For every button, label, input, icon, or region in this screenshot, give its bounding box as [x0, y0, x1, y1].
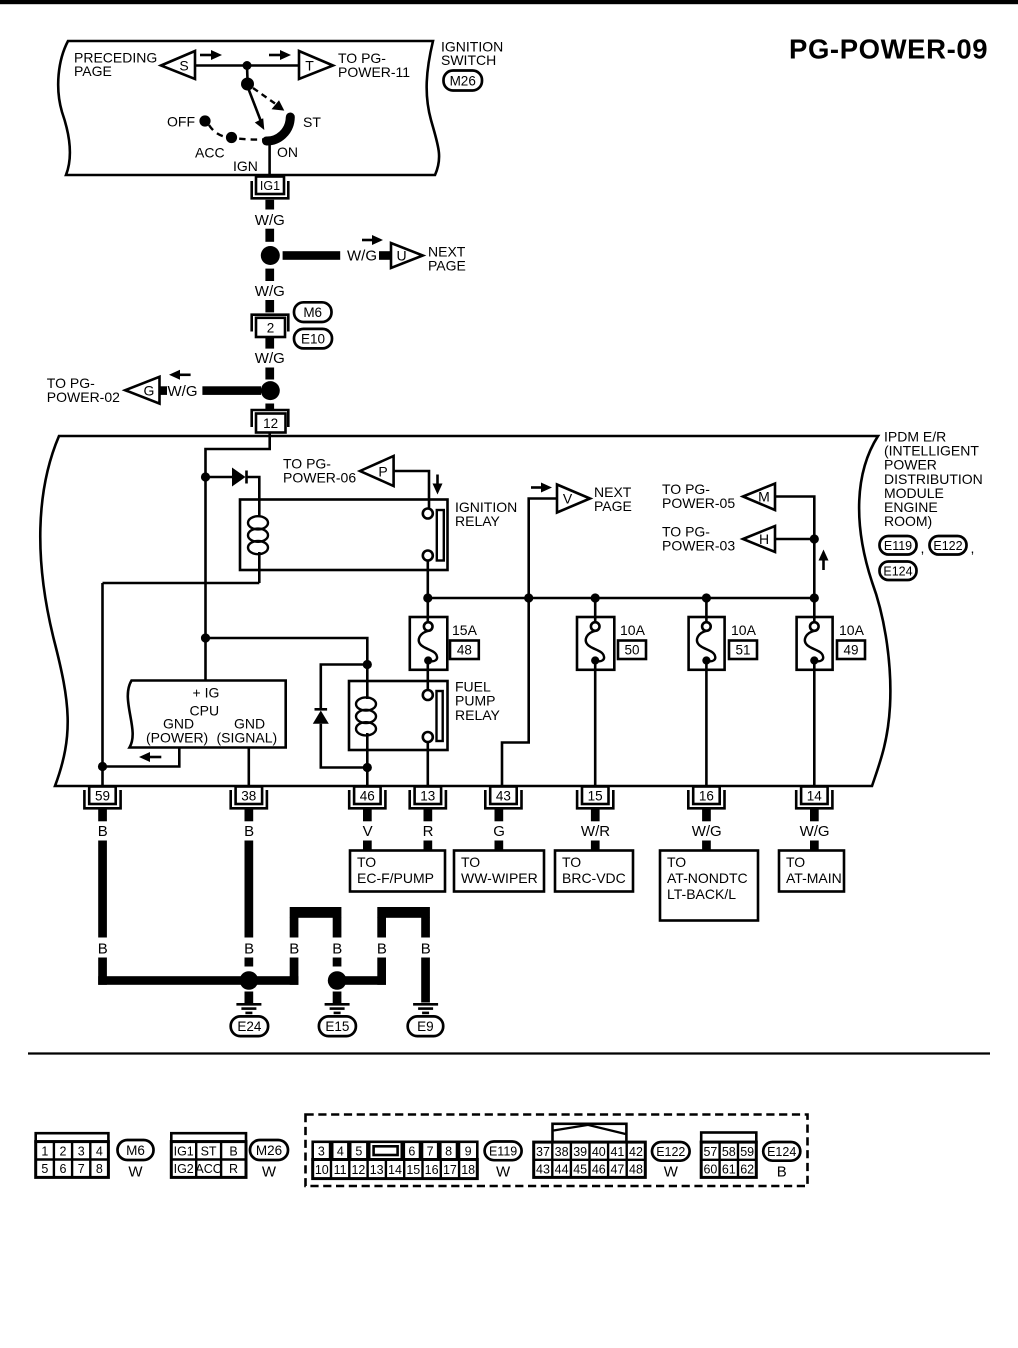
fuse number 48 box — [450, 641, 479, 660]
svg-text:IG2: IG2 — [174, 1162, 194, 1176]
terminal 38 — [231, 790, 267, 808]
terminal 16 — [688, 790, 724, 808]
svg-text:4: 4 — [96, 1144, 103, 1158]
svg-text:POWER-05: POWER-05 — [662, 495, 735, 511]
svg-text:ST: ST — [303, 114, 321, 130]
svg-text:59: 59 — [95, 788, 110, 803]
wire node to rotor pivot — [246, 66, 249, 81]
svg-text:5: 5 — [41, 1162, 48, 1176]
svg-text:46: 46 — [360, 788, 375, 803]
fuse number 51 box — [729, 641, 757, 660]
wire bus to fuse 51 — [705, 598, 708, 623]
terminal 15 — [577, 790, 613, 808]
connector M6 pinout — [36, 1133, 109, 1177]
terminal 43 — [485, 790, 521, 808]
svg-text:W: W — [128, 1164, 143, 1181]
box TO AT-MAIN — [779, 851, 844, 892]
svg-text:ROOM): ROOM) — [884, 513, 932, 529]
wire W/G dash — [265, 229, 274, 242]
IPDM E/R box outline — [40, 436, 890, 786]
wire node to terminal 59 — [101, 767, 104, 787]
fuse number 49 box — [837, 641, 865, 660]
svg-text:47: 47 — [610, 1162, 624, 1176]
wire FP contact to terminal 13 — [426, 742, 429, 786]
rotor pivot dot — [241, 78, 254, 91]
svg-text:4: 4 — [337, 1145, 344, 1159]
ground label E24 oval — [231, 1016, 268, 1036]
svg-text:E124: E124 — [767, 1145, 796, 1159]
wire relay contact to bus — [426, 561, 429, 599]
svg-text:43: 43 — [496, 788, 511, 803]
wire stub 38 — [245, 809, 254, 822]
wire fuse 51 to terminal 16 — [705, 661, 708, 786]
svg-text:RELAY: RELAY — [455, 513, 501, 529]
wire coil return down — [101, 583, 104, 767]
svg-text:42: 42 — [629, 1145, 643, 1159]
wire thick to G arrow — [202, 386, 261, 395]
diode D1 (series, pointing right) — [232, 468, 246, 487]
svg-text:45: 45 — [573, 1162, 587, 1176]
svg-text:7: 7 — [427, 1145, 434, 1159]
svg-text:E9: E9 — [417, 1019, 434, 1034]
box TO EC-F/PUMP — [350, 851, 445, 892]
node M/H — [810, 534, 819, 543]
fuel pump relay contact bar — [437, 691, 443, 741]
svg-text:M: M — [758, 489, 770, 505]
svg-text:SWITCH: SWITCH — [441, 52, 496, 68]
svg-text:17: 17 — [443, 1163, 457, 1177]
wire stub before G — [160, 386, 168, 395]
svg-text:58: 58 — [722, 1145, 736, 1159]
svg-text:W/G: W/G — [255, 283, 285, 300]
connector 12 (IPDM inlet) — [252, 410, 289, 427]
svg-text:40: 40 — [592, 1145, 606, 1159]
svg-text:B: B — [229, 1144, 237, 1158]
svg-text:B: B — [377, 941, 387, 958]
wire branch to FP relay coil — [206, 638, 368, 665]
connector label E124 oval — [763, 1142, 800, 1161]
svg-text:IG1: IG1 — [174, 1144, 194, 1158]
wire 13 into box — [424, 841, 433, 852]
fuel pump relay box — [349, 681, 448, 750]
svg-text:38: 38 — [555, 1145, 569, 1159]
wire stub 59 — [98, 809, 107, 822]
wire V branch up — [529, 499, 557, 599]
svg-text:2: 2 — [267, 320, 275, 335]
svg-text:PAGE: PAGE — [74, 63, 112, 79]
wire W/G dash below node 2 — [265, 404, 274, 410]
svg-text:E122: E122 — [933, 539, 962, 553]
connector E122 pinout — [534, 1124, 646, 1178]
wire bus to fuse 50 — [594, 598, 597, 623]
wire 59 down — [98, 841, 107, 938]
wire fuse48 to FP relay contact — [426, 661, 429, 690]
ON/ST thick contact arc — [267, 117, 291, 141]
svg-text:RELAY: RELAY — [455, 707, 501, 723]
wire 14 into box — [810, 841, 819, 852]
wire fuse 50 to terminal 15 — [594, 661, 597, 786]
wire from S to T — [195, 64, 299, 67]
svg-text:W/G: W/G — [347, 248, 377, 265]
svg-text:12: 12 — [351, 1163, 365, 1177]
wire W/G dash below connector 2 — [265, 337, 274, 349]
svg-text:ON: ON — [277, 144, 298, 160]
arrow annotation right (right of node) — [269, 54, 283, 57]
wire 59 down lower — [98, 958, 107, 985]
wire FP coil to terminal 46 — [366, 768, 369, 787]
terminal 14 — [796, 790, 832, 808]
connector label E119 oval — [880, 536, 917, 555]
svg-text:E24: E24 — [237, 1019, 262, 1034]
svg-text:ACC: ACC — [195, 145, 225, 161]
node FP coil bottom — [363, 763, 372, 772]
wire coil bottom out of box — [258, 552, 261, 583]
off-page arrow U (next page) — [391, 243, 423, 268]
svg-text:POWER-11: POWER-11 — [338, 64, 410, 80]
svg-text:37: 37 — [536, 1145, 550, 1159]
connector label E124 oval — [880, 562, 917, 581]
connector 2 (M6/E10 pass-through) — [252, 315, 289, 332]
wire coil return left — [103, 582, 260, 585]
svg-text:7: 7 — [78, 1162, 85, 1176]
svg-text:IGN: IGN — [233, 158, 258, 174]
fuel pump relay coil — [366, 665, 369, 700]
top border bar — [0, 0, 1018, 4]
svg-text:W: W — [664, 1164, 679, 1181]
svg-text:2: 2 — [60, 1144, 67, 1158]
svg-text:E124: E124 — [883, 564, 912, 578]
connector label E119 oval — [485, 1142, 522, 1161]
svg-text:M6: M6 — [303, 305, 322, 320]
svg-text:TO: TO — [562, 854, 581, 870]
svg-text:PG-POWER-09: PG-POWER-09 — [789, 34, 988, 65]
svg-text:W/G: W/G — [168, 383, 198, 400]
node A — [201, 472, 210, 481]
wire diode bottom to lower node — [321, 724, 368, 768]
svg-text:41: 41 — [610, 1145, 624, 1159]
bus node at fuse 48 — [423, 593, 432, 602]
svg-text:14: 14 — [388, 1163, 402, 1177]
svg-text:E119: E119 — [884, 539, 912, 553]
svg-text:59: 59 — [740, 1145, 754, 1159]
svg-text:51: 51 — [735, 643, 750, 658]
svg-text:8: 8 — [445, 1145, 452, 1159]
wire P to relay contact — [394, 471, 429, 509]
node FP coil top — [363, 660, 372, 669]
svg-text:14: 14 — [807, 788, 823, 803]
wire 38 dash to node — [245, 958, 254, 967]
svg-text:16: 16 — [699, 788, 714, 803]
svg-text:11: 11 — [334, 1163, 347, 1177]
jumper E15-E9 right leg — [421, 918, 430, 938]
svg-text:ST: ST — [201, 1144, 217, 1158]
svg-text:IG1: IG1 — [260, 179, 280, 193]
svg-text:16: 16 — [425, 1163, 439, 1177]
connector label M6 oval — [118, 1140, 154, 1160]
svg-text:B: B — [98, 941, 108, 958]
svg-text:E10: E10 — [301, 331, 325, 346]
terminal 13 — [410, 790, 446, 808]
svg-text:M6: M6 — [126, 1143, 145, 1158]
ground symbol E24 — [245, 992, 254, 1004]
jumper E15-E9 top bar — [377, 907, 430, 918]
off-page arrow M (to PG-POWER-05) — [743, 484, 775, 511]
connector E124 pinout — [701, 1133, 756, 1178]
bus node fuse 51 — [702, 593, 711, 602]
fuse 51 box — [689, 617, 725, 670]
wire stub before U — [379, 251, 390, 260]
svg-text:V: V — [363, 823, 373, 840]
ground symbol E15 — [333, 992, 342, 1004]
off-page arrow V (next page) — [557, 485, 590, 513]
arrow annotation left above G wire — [177, 373, 191, 376]
freewheel diode D2 (pointing up) — [315, 708, 328, 711]
node on S-T wire — [243, 61, 252, 70]
svg-text:+ IG: + IG — [193, 685, 220, 701]
svg-text:U: U — [396, 248, 406, 264]
connector label M26 oval — [444, 71, 483, 91]
jumper corner to E15 node — [342, 976, 386, 985]
down arrow annotation — [436, 475, 439, 486]
svg-text:B: B — [244, 823, 254, 840]
box TO BRC-VDC — [555, 851, 633, 892]
svg-text:61: 61 — [722, 1162, 736, 1176]
svg-text:10: 10 — [315, 1163, 329, 1177]
dashed group box — [306, 1115, 808, 1187]
svg-text:TO: TO — [461, 854, 480, 870]
svg-text:5: 5 — [355, 1145, 362, 1159]
dash to E15 node — [333, 958, 342, 967]
ground node E24 — [240, 971, 259, 990]
bus node fuse 49 — [810, 593, 819, 602]
wire W/G dash below node — [265, 269, 274, 281]
svg-text:49: 49 — [843, 643, 858, 658]
connector label E122 oval — [930, 536, 967, 555]
svg-text:T: T — [305, 58, 314, 74]
svg-text:38: 38 — [241, 788, 256, 803]
svg-text:PAGE: PAGE — [594, 498, 632, 514]
svg-text:6: 6 — [60, 1162, 67, 1176]
wire W/G dash IG1 down — [265, 200, 274, 210]
box TO WW-WIPER — [454, 851, 544, 892]
fuse 50 box — [577, 617, 614, 670]
wire 38 down — [245, 841, 254, 938]
jumper E24-E15 left leg — [290, 918, 299, 938]
jumper E24-E15 right leg — [333, 918, 342, 938]
svg-text:B: B — [289, 941, 299, 958]
svg-text:1: 1 — [41, 1144, 48, 1158]
dashed detent arc OFF-ACC-ON — [209, 125, 263, 140]
wire 16 into box — [702, 841, 711, 852]
svg-text:46: 46 — [592, 1162, 606, 1176]
CPU box — [128, 681, 286, 748]
fuse 48 element — [424, 622, 433, 631]
ignition relay contact terminals — [423, 509, 433, 519]
wire bus to fuse 48 — [426, 598, 429, 623]
wire stub 14 — [810, 809, 819, 822]
ground symbol E9 — [413, 1003, 438, 1006]
jumper corner to E24 node — [254, 976, 298, 985]
svg-text:B: B — [244, 941, 254, 958]
svg-text:TO: TO — [357, 854, 376, 870]
svg-text:ACC: ACC — [195, 1162, 221, 1176]
connector label M6 oval — [294, 302, 332, 322]
junction node — [261, 246, 280, 265]
svg-text:R: R — [229, 1162, 238, 1176]
arrow annotation left on GND(POWER) — [147, 756, 161, 759]
svg-text:62: 62 — [740, 1162, 754, 1176]
fuse 50 element — [591, 622, 600, 631]
svg-text:8: 8 — [96, 1162, 103, 1176]
rotor solid arrow to ON — [249, 89, 262, 122]
svg-text:10A: 10A — [620, 622, 646, 638]
off-page arrow H (to PG-POWER-03) — [743, 526, 775, 552]
ignition relay contact bar — [437, 510, 444, 561]
wire W/G dash — [265, 368, 274, 380]
svg-text:B: B — [421, 941, 431, 958]
svg-text:E122: E122 — [656, 1145, 685, 1159]
wire stub 43 — [495, 809, 504, 822]
wire bus to terminal 43 — [502, 598, 529, 786]
junction node 2 — [261, 381, 280, 400]
svg-text:H: H — [759, 531, 769, 547]
svg-text:57: 57 — [703, 1145, 717, 1159]
rotor dashed arrow to ST — [253, 88, 275, 104]
connector label E122 oval — [652, 1142, 690, 1161]
svg-text:60: 60 — [703, 1162, 717, 1176]
svg-text:G: G — [493, 823, 505, 840]
wire thick to NEXT PAGE U — [283, 251, 341, 260]
svg-text:E119: E119 — [489, 1144, 517, 1158]
wire H to M node — [775, 538, 814, 541]
wire GND(SIGNAL) to terminal 38 — [248, 748, 251, 787]
ground label E15 oval — [319, 1016, 356, 1036]
wire W/G dash — [265, 300, 274, 312]
svg-text:9: 9 — [465, 1145, 472, 1159]
svg-text:39: 39 — [573, 1145, 587, 1159]
wire GND(POWER) pin — [103, 748, 180, 767]
ACC contact dot — [226, 132, 237, 143]
arrow annotation right (left of node) — [200, 54, 214, 57]
svg-text:50: 50 — [624, 643, 639, 658]
svg-text:W/G: W/G — [255, 212, 285, 229]
svg-text:W: W — [262, 1164, 277, 1181]
svg-text:W: W — [496, 1164, 511, 1181]
wire 59 corner to E24 — [98, 976, 249, 985]
svg-text:V: V — [563, 491, 573, 507]
ignition relay box — [240, 500, 448, 571]
svg-text:13: 13 — [370, 1163, 384, 1177]
svg-text:TO: TO — [667, 854, 686, 870]
fuse number 50 box — [618, 641, 646, 660]
node +IG branch — [201, 633, 210, 642]
svg-text:,: , — [971, 540, 975, 556]
wire node to freewheel diode top — [321, 665, 368, 709]
box TO AT-NONDTC LT-BACK/L — [660, 851, 758, 921]
svg-text:15: 15 — [406, 1163, 420, 1177]
bus node fuse 50 — [591, 593, 600, 602]
svg-text:PAGE: PAGE — [428, 258, 466, 274]
svg-text:43: 43 — [536, 1162, 550, 1176]
svg-text:G: G — [144, 382, 155, 398]
wire +IG node A down — [204, 477, 207, 681]
svg-text:AT-NONDTC: AT-NONDTC — [667, 870, 748, 886]
svg-text:POWER-02: POWER-02 — [47, 389, 120, 405]
svg-text:,: , — [921, 540, 925, 556]
wire 46 into box — [363, 841, 372, 852]
wire from connector 12 into IPDM to node A — [206, 433, 270, 478]
ground node E15 — [328, 971, 347, 990]
svg-text:S: S — [179, 58, 188, 74]
arrow annotation right above U wire — [362, 239, 375, 242]
ground label E9 oval — [408, 1016, 444, 1036]
svg-text:10A: 10A — [731, 622, 757, 638]
fuse 48 box — [410, 617, 448, 670]
svg-text:48: 48 — [629, 1162, 643, 1176]
svg-text:W/G: W/G — [692, 823, 722, 840]
svg-text:(SIGNAL): (SIGNAL) — [217, 730, 278, 746]
wire E9 down to ground — [421, 958, 430, 1003]
up arrow annotation — [822, 559, 825, 570]
svg-text:E15: E15 — [325, 1019, 349, 1034]
wire stub 15 — [591, 809, 600, 822]
wire M to H node — [775, 497, 814, 540]
ignition relay coil — [248, 516, 268, 529]
svg-text:B: B — [332, 941, 342, 958]
svg-text:3: 3 — [318, 1145, 325, 1159]
svg-text:15A: 15A — [452, 622, 478, 638]
separator line — [28, 1052, 990, 1054]
wire bus to fuse 49 — [813, 598, 816, 623]
jumper E24-E15 top bar — [290, 907, 342, 918]
svg-text:W/R: W/R — [581, 823, 610, 840]
connector M26 pinout — [171, 1133, 246, 1177]
off-page arrow P (to PG-POWER-06) — [360, 456, 394, 486]
wire stub 46 — [363, 809, 372, 822]
svg-text:OFF: OFF — [167, 114, 195, 130]
fuse 49 element — [810, 622, 819, 631]
svg-text:EC-F/PUMP: EC-F/PUMP — [357, 870, 434, 886]
svg-text:M26: M26 — [256, 1143, 282, 1158]
svg-text:10A: 10A — [839, 622, 865, 638]
bus node V-branch — [524, 593, 533, 602]
off-page arrow G (to PG-POWER-02) — [125, 377, 159, 404]
wire stub 13 — [424, 809, 433, 822]
wire 43 into box — [495, 841, 504, 852]
OFF contact dot — [199, 115, 210, 126]
wire M/H node to bus — [813, 539, 816, 598]
fuse 51 element — [702, 622, 711, 631]
fuel pump relay contact terminals — [423, 690, 433, 700]
svg-text:15: 15 — [588, 788, 603, 803]
wire node A to diode — [206, 476, 233, 479]
connector label M26 oval — [250, 1140, 288, 1160]
svg-text:R: R — [423, 823, 434, 840]
svg-text:M26: M26 — [450, 73, 476, 88]
terminal 46 — [349, 790, 385, 808]
svg-text:POWER-03: POWER-03 — [662, 538, 735, 554]
wire stub 16 — [702, 809, 711, 822]
ignition switch box outline — [58, 41, 439, 175]
svg-text:B: B — [98, 823, 108, 840]
svg-text:3: 3 — [78, 1144, 85, 1158]
jumper E15-E9 left leg — [377, 918, 386, 938]
terminal IG1 of ignition switch — [252, 181, 289, 198]
svg-text:POWER-06: POWER-06 — [283, 470, 356, 486]
off-page arrow T (to PG-POWER-11) — [299, 51, 333, 79]
off-page arrow S (preceding page) — [161, 51, 195, 79]
svg-text:18: 18 — [461, 1163, 475, 1177]
